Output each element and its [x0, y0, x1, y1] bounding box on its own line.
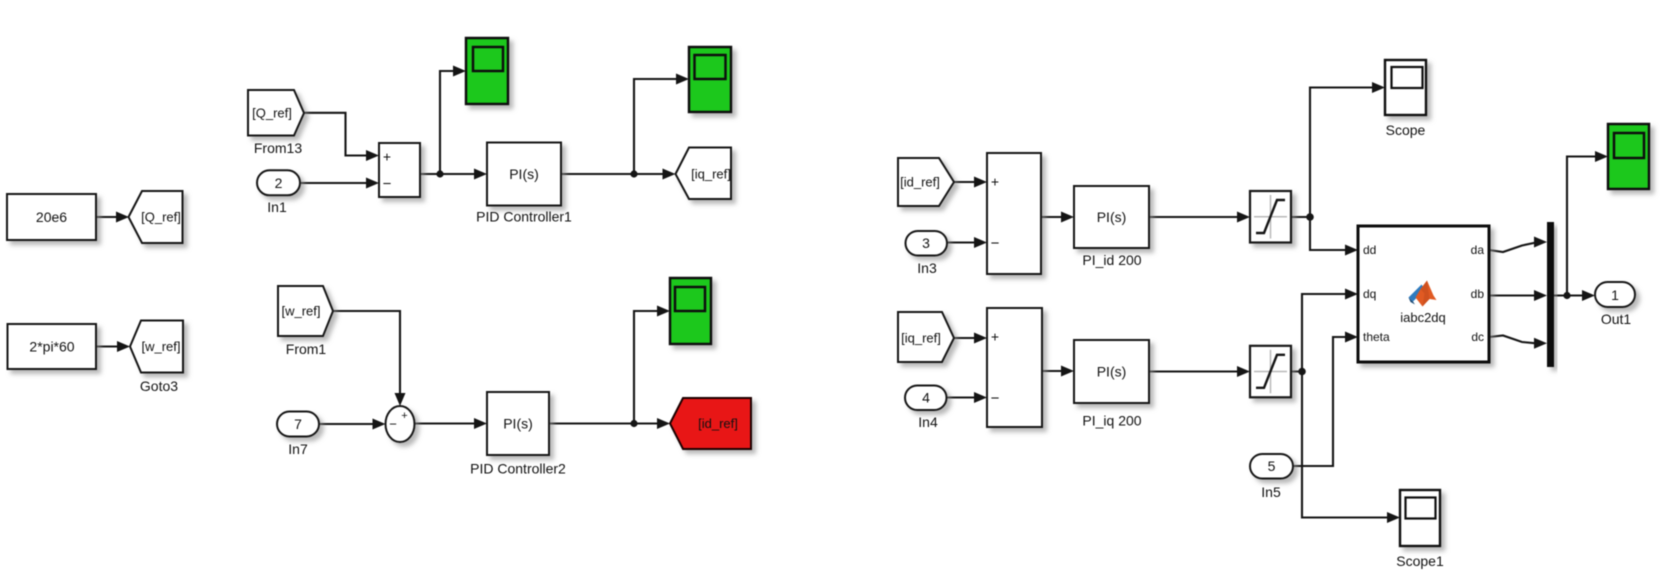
svg-text:In7: In7 — [288, 441, 308, 457]
svg-text:[id_ref]: [id_ref] — [698, 416, 738, 431]
svg-text:2: 2 — [275, 175, 283, 191]
svg-text:PID Controller1: PID Controller1 — [476, 209, 572, 225]
svg-text:From13: From13 — [254, 140, 302, 156]
svg-text:dq: dq — [1363, 287, 1376, 301]
svg-text:+: + — [383, 149, 391, 165]
svg-text:theta: theta — [1363, 330, 1390, 344]
svg-text:PI(s): PI(s) — [509, 166, 539, 182]
svg-text:In3: In3 — [917, 260, 937, 276]
svg-text:PI_iq 200: PI_iq 200 — [1082, 413, 1141, 429]
svg-text:7: 7 — [294, 416, 302, 432]
svg-text:dc: dc — [1471, 330, 1484, 344]
svg-text:−: − — [389, 417, 397, 432]
svg-text:[Q_ref]: [Q_ref] — [252, 106, 292, 121]
svg-text:In5: In5 — [1261, 484, 1281, 500]
svg-text:PID Controller2: PID Controller2 — [470, 461, 566, 477]
svg-text:1: 1 — [1611, 287, 1619, 303]
svg-text:Scope: Scope — [1386, 122, 1426, 138]
svg-text:PI_id 200: PI_id 200 — [1082, 252, 1141, 268]
svg-text:Scope1: Scope1 — [1396, 553, 1444, 569]
svg-text:iabc2dq: iabc2dq — [1400, 310, 1446, 325]
svg-text:−: − — [991, 390, 1000, 407]
svg-text:−: − — [991, 235, 1000, 252]
svg-text:From1: From1 — [286, 341, 327, 357]
svg-text:4: 4 — [922, 390, 930, 406]
svg-text:In4: In4 — [918, 414, 938, 430]
svg-text:[iq_ref]: [iq_ref] — [901, 331, 941, 346]
svg-text:PI(s): PI(s) — [1097, 209, 1127, 225]
svg-text:2*pi*60: 2*pi*60 — [29, 339, 74, 355]
svg-text:Out1: Out1 — [1601, 311, 1632, 327]
svg-text:[w_ref]: [w_ref] — [141, 339, 180, 354]
svg-text:da: da — [1471, 243, 1485, 257]
svg-text:[id_ref]: [id_ref] — [900, 175, 940, 190]
svg-text:20e6: 20e6 — [36, 209, 67, 225]
svg-text:Goto3: Goto3 — [140, 378, 178, 394]
svg-text:In1: In1 — [267, 199, 287, 215]
svg-text:[w_ref]: [w_ref] — [281, 304, 320, 319]
svg-text:[Q_ref]: [Q_ref] — [141, 210, 181, 225]
svg-text:−: − — [383, 176, 392, 193]
svg-text:PI(s): PI(s) — [503, 416, 533, 432]
svg-text:dd: dd — [1363, 243, 1376, 257]
svg-text:+: + — [991, 174, 999, 190]
svg-text:+: + — [401, 410, 407, 422]
svg-text:[iq_ref]: [iq_ref] — [691, 167, 731, 182]
svg-text:5: 5 — [1268, 458, 1276, 474]
svg-text:+: + — [991, 329, 999, 345]
svg-text:3: 3 — [922, 235, 930, 251]
svg-text:PI(s): PI(s) — [1097, 364, 1127, 380]
svg-text:db: db — [1471, 287, 1485, 301]
